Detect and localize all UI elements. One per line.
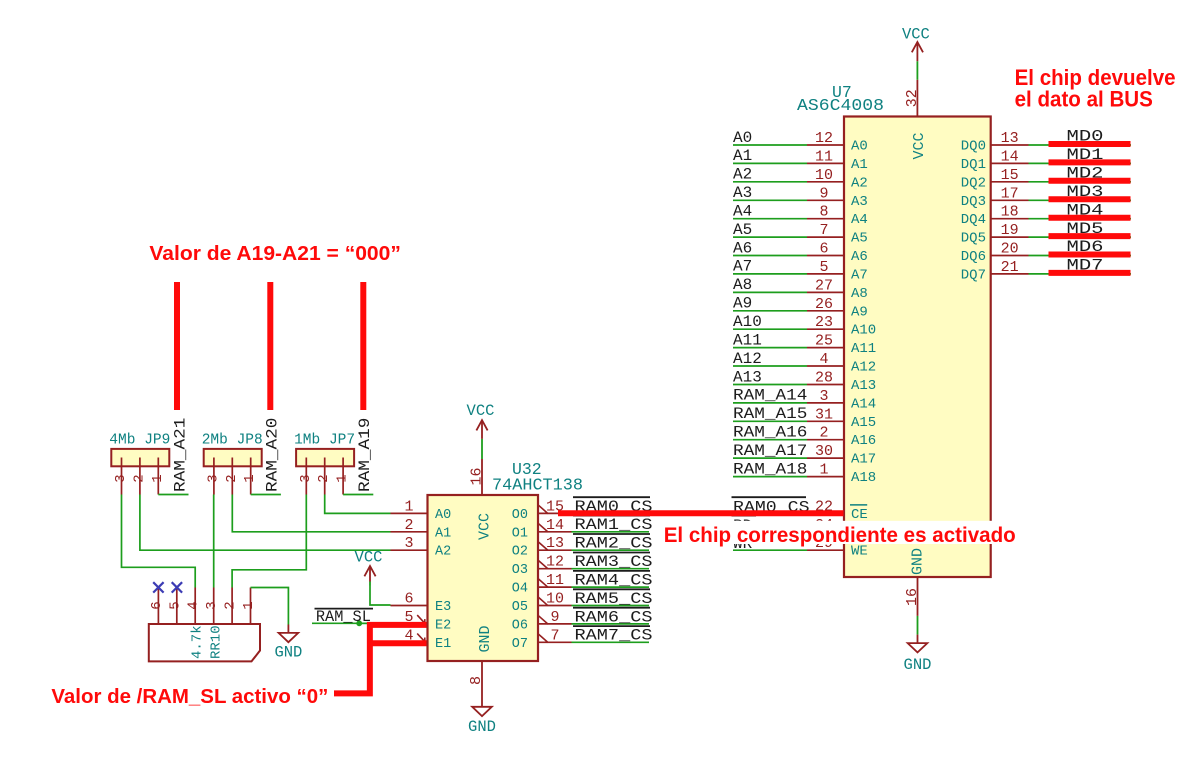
U7 pin 5 (A7) with wire and label A7 — [733, 258, 868, 284]
svg-text:DQ7: DQ7 — [961, 267, 986, 283]
svg-text:11: 11 — [546, 572, 564, 589]
svg-text:RAM_A16: RAM_A16 — [733, 424, 807, 442]
RR10 pin 5 — [167, 588, 183, 625]
op-amp U7 body (AS6C4008 SRAM) — [844, 117, 991, 578]
resistor network RR10 body — [149, 624, 260, 661]
svg-text:17: 17 — [1001, 185, 1019, 202]
U7 pin 26 (A9) with wire and label A9 — [733, 295, 868, 321]
jumper JP8 (2Mb) body — [204, 449, 262, 466]
svg-text:A0: A0 — [435, 508, 451, 523]
svg-text:3: 3 — [819, 388, 828, 405]
U32 pin 3 (A2) — [391, 535, 452, 560]
pin name VCC inside U32 — [477, 513, 494, 540]
U32 pin 2 (A1) — [391, 517, 452, 542]
svg-text:RAM_A21: RAM_A21 — [171, 418, 189, 492]
U32 pin 4 (E1) — [391, 627, 452, 652]
U7 pin 19 (DQ5) with wire and label MD5 — [961, 220, 1131, 247]
JP7 pin 3 — [298, 458, 314, 495]
U7 pin 7 (A5) with wire and label A5 — [733, 221, 868, 247]
svg-text:RAM_A15: RAM_A15 — [733, 405, 807, 423]
wire RR10 pin1 to ground — [251, 588, 289, 625]
svg-text:VCC: VCC — [355, 549, 383, 567]
U7 pin 25 (A11) with wire and label A11 — [733, 331, 876, 357]
JP7 pin 1 — [335, 458, 351, 495]
svg-text:O2: O2 — [512, 545, 528, 560]
U32 pin 15 (O0) with wire and active-low label RAM0_CS — [512, 497, 653, 523]
svg-text:RAM_SL: RAM_SL — [316, 608, 371, 626]
reference RR10 — [209, 625, 225, 659]
RR10 pin 6 — [149, 588, 165, 625]
U7 pin 23 (A10) with wire and label A10 — [733, 313, 876, 339]
svg-text:RAM4_CS: RAM4_CS — [575, 572, 653, 590]
svg-text:3: 3 — [204, 601, 220, 609]
svg-text:25: 25 — [815, 333, 833, 350]
svg-text:RAM3_CS: RAM3_CS — [575, 553, 653, 571]
svg-text:3: 3 — [404, 535, 413, 552]
svg-text:2: 2 — [819, 425, 828, 442]
svg-text:28: 28 — [815, 370, 833, 387]
VCC power symbol at U7 pin 32 — [902, 26, 930, 117]
JP8 pin 1 — [242, 458, 258, 495]
svg-text:15: 15 — [1001, 167, 1019, 184]
svg-text:el dato al BUS: el dato al BUS — [1015, 87, 1153, 112]
svg-text:AS6C4008: AS6C4008 — [797, 96, 884, 115]
svg-text:O7: O7 — [512, 637, 528, 652]
svg-text:12: 12 — [815, 130, 833, 147]
svg-text:A0: A0 — [733, 129, 752, 147]
U7 pin 9 (A3) with wire and label A3 — [733, 184, 868, 210]
svg-text:A12: A12 — [851, 360, 876, 376]
red highlight bar over MD6 wire — [1049, 252, 1131, 258]
red highlight bar over RAM_A21 — [174, 282, 180, 410]
U32 pin 13 (O2) with wire and active-low label RAM2_CS — [512, 534, 653, 560]
svg-text:RAM7_CS: RAM7_CS — [575, 627, 653, 645]
svg-text:VCC: VCC — [902, 26, 930, 44]
pin name GND inside U7 — [910, 548, 927, 575]
svg-text:16: 16 — [904, 588, 921, 606]
svg-text:1: 1 — [404, 498, 413, 515]
svg-text:A13: A13 — [733, 368, 762, 386]
wire JP7 pin2 to U32 A0 — [325, 495, 391, 514]
svg-text:VCC: VCC — [477, 513, 494, 540]
svg-text:4: 4 — [819, 351, 828, 368]
U7 pin 14 (DQ1) with wire and label MD1 — [961, 146, 1131, 173]
U7 pin 30 (RAM_A17) with wire and label RAM_A17 — [733, 442, 876, 468]
wire and label RAM_A19 at JP7 pin 1 — [343, 418, 374, 495]
junction at RAM_SL node — [356, 620, 362, 626]
annotation text: Valor de /RAM_SL activo 0 — [51, 686, 328, 708]
svg-text:A10: A10 — [851, 323, 876, 339]
svg-text:O3: O3 — [512, 563, 528, 578]
svg-text:A13: A13 — [851, 378, 876, 394]
svg-text:A7: A7 — [851, 267, 868, 283]
value 4.7k of RR10 — [190, 625, 206, 659]
RR10 pin 1 — [241, 588, 257, 625]
svg-text:11: 11 — [815, 148, 833, 165]
value 4Mb of JP9 — [109, 433, 135, 449]
svg-text:A16: A16 — [851, 433, 876, 449]
U7 pin 4 (A12) with wire and label A12 — [733, 350, 876, 376]
wire JP9 pin3 to RR10 pin4 — [122, 495, 196, 588]
red highlight bar over RAM_A20 — [267, 282, 273, 410]
svg-text:1: 1 — [335, 474, 351, 482]
svg-text:7: 7 — [550, 627, 559, 644]
svg-text:13: 13 — [1001, 130, 1019, 147]
svg-text:74AHCT138: 74AHCT138 — [492, 476, 583, 495]
white backdrop of activado annotation — [656, 521, 1018, 544]
svg-text:DQ5: DQ5 — [961, 231, 986, 247]
RR10 pin 3 — [204, 588, 220, 625]
wire and label RAM_A21 at JP9 pin 1 — [158, 418, 189, 495]
svg-text:VCC: VCC — [467, 402, 495, 420]
svg-text:A8: A8 — [733, 276, 752, 294]
VCC power symbol feeding U32 E3 — [355, 549, 383, 586]
svg-text:13: 13 — [546, 535, 564, 552]
U7 pin 24 (OE) with active-low label RD — [732, 516, 868, 542]
svg-text:E1: E1 — [435, 637, 451, 652]
svg-text:1: 1 — [819, 462, 828, 479]
svg-text:DQ2: DQ2 — [961, 175, 986, 191]
svg-text:A5: A5 — [851, 231, 868, 247]
svg-text:El chip correspondiente es act: El chip correspondiente es activado — [664, 523, 1016, 547]
svg-text:O4: O4 — [512, 582, 528, 597]
svg-text:A14: A14 — [851, 396, 876, 412]
svg-text:4.7k: 4.7k — [190, 625, 206, 659]
jumper JP7 (1Mb) body — [296, 449, 354, 466]
reference JP7 — [329, 433, 355, 449]
svg-text:JP8: JP8 — [237, 433, 263, 449]
svg-text:JP7: JP7 — [329, 433, 355, 449]
svg-text:JP9: JP9 — [144, 433, 170, 449]
svg-text:RR10: RR10 — [209, 625, 225, 659]
svg-text:O6: O6 — [512, 618, 528, 633]
wire VCC to U32 E3 — [370, 586, 391, 606]
U32 pin 12 (O3) with wire and active-low label RAM3_CS — [512, 553, 653, 579]
svg-text:RAM_A17: RAM_A17 — [733, 442, 807, 460]
svg-text:16: 16 — [469, 467, 486, 485]
svg-text:32: 32 — [904, 89, 921, 107]
svg-text:23: 23 — [815, 314, 833, 331]
svg-text:A2: A2 — [733, 166, 752, 184]
red highlight bar over MD0 wire — [1049, 141, 1131, 147]
wire JP8 pin3 to RR10 pin3 — [213, 495, 215, 588]
svg-text:26: 26 — [815, 296, 833, 313]
svg-text:27: 27 — [815, 277, 833, 294]
svg-text:1: 1 — [242, 474, 258, 482]
U7 pin 2 (RAM_A16) with wire and label RAM_A16 — [733, 424, 876, 450]
svg-text:A8: A8 — [851, 286, 868, 302]
ground symbol at U32 pin 8 — [468, 661, 496, 736]
U32 pin 5 (E2) — [391, 609, 452, 634]
U7 pin 18 (DQ4) with wire and label MD4 — [961, 201, 1131, 228]
svg-text:RAM_A19: RAM_A19 — [356, 418, 374, 492]
JP9 pin 1 — [150, 458, 166, 495]
svg-text:2: 2 — [404, 517, 413, 534]
U32 pin 14 (O1) with wire and active-low label RAM1_CS — [512, 516, 653, 542]
svg-text:9: 9 — [550, 609, 559, 626]
svg-text:RAM5_CS: RAM5_CS — [575, 590, 653, 608]
svg-text:A12: A12 — [733, 350, 762, 368]
svg-text:1: 1 — [241, 601, 257, 609]
U7 pin 17 (DQ3) with wire and label MD3 — [961, 183, 1131, 210]
svg-text:DQ6: DQ6 — [961, 249, 986, 265]
label RAM_SL (active low) — [315, 608, 374, 626]
svg-text:2Mb: 2Mb — [202, 433, 228, 449]
reference JP8 — [237, 433, 263, 449]
svg-text:GND: GND — [910, 548, 927, 575]
svg-text:GND: GND — [274, 643, 302, 661]
svg-text:VCC: VCC — [911, 132, 928, 159]
U7 pin 13 (DQ0) with wire and label MD0 — [961, 128, 1131, 155]
svg-text:14: 14 — [1001, 148, 1019, 165]
svg-text:7: 7 — [819, 222, 828, 239]
svg-text:GND: GND — [477, 625, 494, 652]
value 1Mb of JP7 — [294, 433, 320, 449]
svg-text:GND: GND — [904, 656, 932, 674]
ground symbol near RR10 — [274, 625, 302, 662]
U7 pin 8 (A4) with wire and label A4 — [733, 203, 868, 229]
svg-text:RAM1_CS: RAM1_CS — [575, 516, 653, 534]
U32 pin 9 (O6) with wire and active-low label RAM6_CS — [512, 608, 653, 634]
JP9 pin 2 — [131, 458, 147, 495]
wire RAM_SL to U32 E2/E1 — [312, 623, 391, 641]
value 2Mb of JP8 — [202, 433, 228, 449]
svg-text:3: 3 — [113, 474, 129, 482]
red highlight bar over MD3 wire — [1049, 196, 1131, 202]
svg-text:10: 10 — [815, 167, 833, 184]
svg-text:A4: A4 — [851, 212, 868, 228]
svg-text:A15: A15 — [851, 415, 876, 431]
svg-text:2: 2 — [316, 474, 332, 482]
svg-text:CE: CE — [851, 507, 868, 523]
op-amp U32 body (74AHCT138 decoder) — [428, 495, 539, 661]
jumper JP9 (4Mb) body — [111, 449, 169, 466]
U7 pin 1 (RAM_A18) with wire and label RAM_A18 — [733, 460, 876, 486]
svg-text:A10: A10 — [733, 313, 762, 331]
U7 pin 22 (CE) with active-low label RAM0_CS — [732, 497, 868, 523]
reference U32 — [512, 460, 542, 479]
reference JP9 — [144, 433, 170, 449]
svg-text:E2: E2 — [435, 618, 451, 633]
U7 pin 29 (WE) with active-low label WR — [732, 534, 868, 560]
svg-text:A2: A2 — [435, 545, 451, 560]
svg-text:RAM_A20: RAM_A20 — [264, 418, 282, 492]
svg-text:2: 2 — [131, 474, 147, 482]
U7 pin 20 (DQ6) with wire and label MD6 — [961, 238, 1131, 265]
svg-text:20: 20 — [1001, 241, 1019, 258]
svg-text:A11: A11 — [851, 341, 876, 357]
U7 pin 12 (A0) with wire and label A0 — [733, 129, 868, 155]
pin name GND inside U32 — [477, 625, 494, 652]
svg-text:A6: A6 — [733, 239, 752, 257]
svg-text:Valor de A19-A21 = “000”: Valor de A19-A21 = “000” — [149, 243, 400, 265]
VCC power symbol at U32 pin 16 — [467, 402, 495, 495]
red highlight path from annotation to U32 E1/E2 — [334, 625, 427, 694]
svg-text:4Mb: 4Mb — [109, 433, 135, 449]
value 74AHCT138 — [492, 476, 583, 495]
svg-text:4: 4 — [186, 601, 202, 609]
RR10 pin 4 — [186, 588, 202, 625]
svg-text:O1: O1 — [512, 526, 528, 541]
svg-text:6: 6 — [149, 601, 165, 609]
JP8 pin 2 — [224, 458, 240, 495]
svg-text:6: 6 — [819, 241, 828, 258]
U7 pin 10 (A2) with wire and label A2 — [733, 166, 868, 192]
svg-text:5: 5 — [167, 601, 183, 609]
red highlight bar over MD1 wire — [1049, 159, 1131, 165]
svg-text:Valor de /RAM_SL activo “0”: Valor de /RAM_SL activo “0” — [51, 686, 328, 708]
svg-text:A9: A9 — [733, 295, 752, 313]
reference U7 — [832, 83, 852, 102]
U7 pin 3 (RAM_A14) with wire and label RAM_A14 — [733, 387, 876, 413]
svg-text:A6: A6 — [851, 249, 868, 265]
svg-text:14: 14 — [546, 517, 564, 534]
svg-text:RAM2_CS: RAM2_CS — [575, 535, 653, 553]
svg-text:10: 10 — [546, 591, 564, 608]
U7 pin 28 (A13) with wire and label A13 — [733, 368, 876, 394]
no-connect X on RR10 pin 6 — [153, 582, 163, 592]
red highlight bar over RAM_A19 — [360, 282, 366, 410]
JP8 pin 3 — [205, 458, 221, 495]
svg-text:A18: A18 — [851, 470, 876, 486]
svg-text:6: 6 — [404, 591, 413, 608]
svg-text:A3: A3 — [851, 194, 868, 210]
wire JP8 pin2 to U32 A1 — [232, 495, 390, 532]
JP7 pin 2 — [316, 458, 332, 495]
svg-text:E3: E3 — [435, 600, 451, 615]
svg-text:DQ1: DQ1 — [961, 157, 986, 173]
svg-text:18: 18 — [1001, 204, 1019, 221]
red highlight bar over MD4 wire — [1049, 215, 1131, 221]
svg-text:19: 19 — [1001, 222, 1019, 239]
svg-text:21: 21 — [1001, 259, 1019, 276]
svg-text:RAM6_CS: RAM6_CS — [575, 608, 653, 626]
svg-text:8: 8 — [468, 676, 485, 685]
wire JP7 pin3 to RR10 pin2 — [232, 495, 306, 588]
svg-text:RAM_A14: RAM_A14 — [733, 387, 807, 405]
svg-text:DQ0: DQ0 — [961, 139, 986, 155]
svg-text:O0: O0 — [512, 508, 528, 523]
svg-text:31: 31 — [815, 406, 833, 423]
svg-text:8: 8 — [819, 204, 828, 221]
svg-text:A1: A1 — [733, 147, 752, 165]
U32 pin 10 (O5) with wire and active-low label RAM5_CS — [512, 589, 653, 615]
wire JP9 pin2 to U32 A2 — [140, 495, 391, 551]
svg-text:1Mb: 1Mb — [294, 433, 320, 449]
svg-text:3: 3 — [205, 474, 221, 482]
svg-text:A11: A11 — [733, 331, 762, 349]
red highlight bar over RAM0_CS net from U32 O0 to U7 CE — [558, 510, 844, 516]
svg-text:GND: GND — [468, 718, 496, 736]
svg-text:DQ3: DQ3 — [961, 194, 986, 210]
svg-text:2: 2 — [224, 474, 240, 482]
svg-text:2: 2 — [223, 601, 239, 609]
svg-text:5: 5 — [819, 259, 828, 276]
svg-text:A3: A3 — [733, 184, 752, 202]
no-connect X on RR10 pin 5 — [172, 582, 182, 592]
svg-text:A1: A1 — [851, 157, 868, 173]
pin name VCC inside U7 — [911, 132, 928, 159]
U32 pin 11 (O4) with wire and active-low label RAM4_CS — [512, 571, 653, 597]
U7 pin 21 (DQ7) with wire and label MD7 — [961, 257, 1131, 284]
RR10 pin 2 — [223, 588, 239, 625]
svg-text:A1: A1 — [435, 526, 451, 541]
U7 pin 6 (A6) with wire and label A6 — [733, 239, 868, 265]
svg-text:DQ4: DQ4 — [961, 212, 986, 228]
ground symbol at U7 pin 16 — [904, 577, 932, 674]
wire and label RAM_A20 at JP8 pin 1 — [251, 418, 282, 495]
svg-text:A5: A5 — [733, 221, 752, 239]
svg-text:A17: A17 — [851, 452, 876, 468]
U32 pin 6 (E3) — [391, 591, 452, 616]
svg-text:12: 12 — [546, 554, 564, 571]
annotation text: Valor de A19-A21 — [149, 243, 400, 265]
value AS6C4008 — [797, 96, 884, 115]
svg-text:A7: A7 — [733, 258, 752, 276]
svg-text:A4: A4 — [733, 203, 752, 221]
svg-text:1: 1 — [150, 474, 166, 482]
svg-text:3: 3 — [298, 474, 314, 482]
JP9 pin 3 — [113, 458, 129, 495]
svg-text:A2: A2 — [851, 175, 868, 191]
red highlight bar over MD5 wire — [1049, 233, 1131, 239]
svg-text:A0: A0 — [851, 139, 868, 155]
U32 pin 7 (O7) with wire and active-low label RAM7_CS — [512, 626, 653, 652]
svg-text:O5: O5 — [512, 600, 528, 615]
U7 pin 15 (DQ2) with wire and label MD2 — [961, 165, 1131, 192]
U7 pin 27 (A8) with wire and label A8 — [733, 276, 868, 302]
U32 pin 1 (A0) — [391, 498, 452, 523]
annotation text: El chip correspondiente es activado — [664, 523, 1016, 547]
svg-text:30: 30 — [815, 443, 833, 460]
U7 pin 11 (A1) with wire and label A1 — [733, 147, 868, 173]
red highlight bar over MD7 wire — [1049, 270, 1131, 276]
U7 pin 31 (RAM_A15) with wire and label RAM_A15 — [733, 405, 876, 431]
annotation text: El chip devuelve el dato al BUS — [1015, 65, 1176, 112]
svg-text:RAM_A18: RAM_A18 — [733, 460, 807, 478]
svg-text:A9: A9 — [851, 304, 868, 320]
svg-text:9: 9 — [819, 185, 828, 202]
red highlight bar over MD2 wire — [1049, 178, 1131, 184]
